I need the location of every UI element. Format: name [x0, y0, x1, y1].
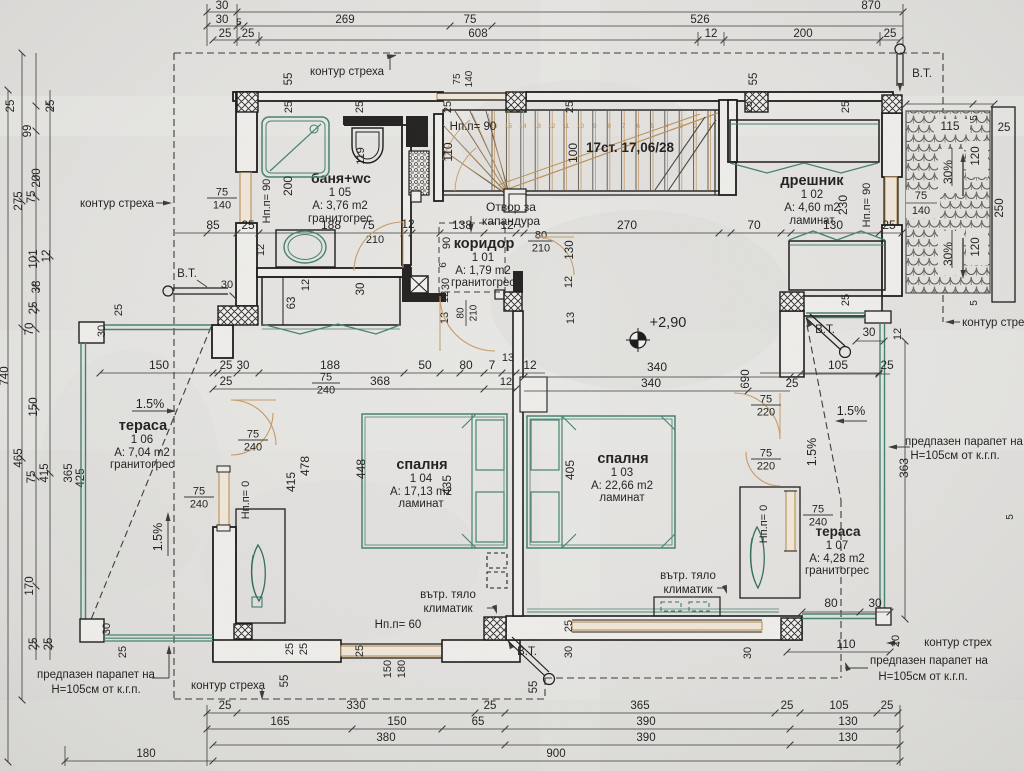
wall: bottom bedroom 1 04 right piece	[442, 640, 520, 662]
stair winders	[443, 125, 510, 197]
shaft dotted block	[409, 151, 429, 195]
shower cabin	[262, 117, 329, 177]
wall: right exterior lower	[882, 225, 902, 296]
roof tiles dimension box right	[992, 107, 1015, 302]
vent pipe В.Т. hall right	[806, 318, 812, 327]
wall: top exterior right section	[526, 92, 893, 101]
door arcs bedroom 1 04 north	[231, 400, 276, 445]
terrace corner block bottom-right	[876, 608, 891, 625]
wall: left exterior below window	[236, 223, 257, 306]
terrace 1 07 railing top	[806, 312, 866, 314]
roof tiles hatch area	[906, 111, 990, 293]
teal finish line above bottom wall 1 03	[527, 611, 779, 613]
bed pillows 1 04	[476, 420, 504, 470]
bed pillows 1 03	[531, 420, 559, 470]
terrace corner block top-left	[79, 322, 104, 343]
scan grain overlay	[0, 0, 1, 1]
roof eave contour dashed outline	[174, 52, 943, 54]
window bottom bedroom 1 04 Нп.п=60	[341, 646, 442, 656]
wall corner block at railing top	[865, 311, 891, 323]
window bottom bedroom 1 03	[572, 622, 762, 630]
corridor door arc to bedroom 1 03	[440, 296, 495, 351]
wall: дрешник west	[728, 100, 737, 162]
terrace 1 07 dims bottom	[802, 611, 890, 613]
wardrobe bedroom 1 04	[262, 277, 400, 325]
dim 105 25 terrace 1 07 top	[800, 373, 890, 375]
vent pipe В.Т. bottom center	[508, 640, 514, 649]
bed bedroom 1 04	[362, 414, 507, 548]
wall: left of bedroom 1 04 upper	[212, 325, 233, 358]
wall: hall east / terrace 1 07 column	[780, 311, 804, 377]
wall: corridor south band	[411, 293, 446, 302]
vent pipe В.Т. top right	[895, 44, 905, 54]
wall: bathroom left exterior	[236, 92, 257, 172]
dimension chain 368 row	[213, 388, 516, 390]
wall: bathroom east	[402, 125, 411, 265]
wall: top exterior left section	[233, 92, 443, 101]
wall: stairs left wall	[434, 114, 443, 201]
AC unit terrace 1 07	[740, 487, 800, 598]
left dimension chains	[7, 90, 9, 762]
dim 363 right	[904, 341, 906, 619]
roof slope diagonal terrace 1 07	[807, 325, 841, 500]
wardrobe дрешник top	[730, 120, 879, 162]
bottom dimension chain row 3	[213, 744, 900, 746]
otvor za kapandura dashed rect	[439, 223, 505, 292]
wardrobe hanging symbols	[262, 324, 400, 334]
wall: right exterior upper	[882, 113, 902, 177]
window bathroom left 75/140	[240, 172, 251, 223]
wall: top exterior window strip above stairs	[437, 93, 506, 100]
terrace 1 06 railing top	[104, 324, 211, 326]
late crosshatch blocks	[234, 624, 252, 639]
dimension 340 row hall	[524, 376, 790, 378]
window right exterior 75/140	[885, 177, 897, 225]
bottom dimension chain row 4	[65, 760, 900, 762]
wardrobe дрешник top hanging symbols	[730, 163, 878, 173]
wall: terrace 1 07 west wall lower	[780, 376, 804, 378]
wall: bottom of bedroom 1 04 left part	[213, 640, 341, 662]
interior dimension chain upper	[175, 232, 902, 234]
AC unit on wall bedrooms	[487, 553, 507, 568]
small newel rect at stairs	[411, 191, 421, 202]
bed bedroom 1 03	[527, 416, 675, 548]
window french door bedroom 1 04 left 75/240	[219, 471, 229, 525]
terrace 1 07 railing right	[879, 323, 881, 614]
corridor door arc to дрешник	[536, 237, 574, 275]
wall: bathroom south / counter wall	[257, 268, 411, 277]
wardrobe дрешник lower	[789, 241, 885, 290]
roof slope diagonal terrace 1 06	[90, 327, 211, 622]
stair landing steps bottom	[504, 189, 526, 212]
wall: дрешник south band	[800, 296, 882, 316]
bathroom door arc	[354, 222, 403, 271]
stair treads	[491, 111, 493, 190]
bottom dimension chain row 2	[207, 728, 900, 730]
vent shaft box with X	[410, 276, 428, 293]
top dimension chain row 1	[207, 11, 903, 13]
toilet	[344, 116, 403, 126]
wall: niche solid above toilet	[343, 116, 403, 125]
niche rect on wall between beds	[520, 377, 547, 412]
AC unit bedroom 1 04 floor unit	[236, 509, 285, 623]
stair winder arcs	[455, 148, 476, 191]
terrace 1 07 railing bottom	[802, 613, 877, 615]
wall: door nib corridor	[495, 290, 504, 299]
dimension chain mid-lower	[100, 372, 218, 374]
AC unit bedroom 1 03 bottom	[654, 597, 720, 616]
stair diagonal guide lines	[505, 113, 718, 190]
roof tiles dimensions	[906, 103, 994, 105]
wall: solid block right of bathroom	[406, 116, 428, 147]
top dimension chain row 3	[213, 39, 900, 41]
top dimension chain row 2	[207, 25, 903, 27]
door arcs hall to terrace 1 07	[734, 393, 780, 439]
terrace 1 06 railing bottom	[104, 634, 213, 636]
terrace 1 07 door orange strip	[786, 491, 795, 551]
wall: left of bedroom 1 04 lower	[213, 527, 236, 660]
washbasin counter	[276, 230, 335, 267]
stairs bottom double edge	[346, 335, 348, 337]
wall: between stairs and дрешник	[719, 100, 736, 195]
terrace 1 06 railing left	[80, 343, 82, 629]
column crosshatch blocks	[237, 92, 258, 112]
wall: corridor east column upper solid	[513, 271, 523, 293]
wardrobe дрешник lower hanging symbols	[789, 231, 885, 240]
stairs outline	[443, 110, 719, 191]
washbasin sink	[284, 231, 326, 263]
terrace corner block bottom-left	[80, 619, 104, 642]
wall: corridor west solid pier	[402, 265, 411, 302]
bottom dimension chain row 1	[207, 712, 900, 714]
wall: between bedrooms 1 04 / 1 03	[513, 311, 523, 616]
wall: bottom of bedroom 1 03	[506, 616, 802, 640]
